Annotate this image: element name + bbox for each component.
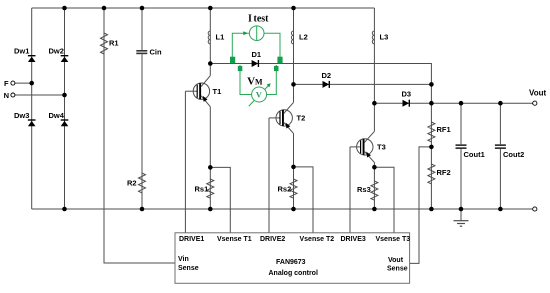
junction top rail L2 bbox=[291, 6, 296, 11]
junction node D2 right bbox=[429, 82, 434, 87]
diode Dw1 bbox=[14, 47, 36, 63]
junction bottom rail R2 bbox=[140, 207, 145, 212]
voltmeter VM circle bbox=[252, 87, 267, 102]
resistor Rs2 bbox=[278, 179, 298, 198]
junction node Rs3 top bbox=[372, 165, 377, 170]
wire R1 column bbox=[104, 8, 175, 263]
svg-text:D1: D1 bbox=[252, 50, 262, 59]
diode D2 bbox=[322, 71, 332, 88]
junction bottom rail Rs2 bbox=[291, 207, 296, 212]
junction bottom rail ground Cout1 bbox=[459, 207, 464, 212]
svg-text:D2: D2 bbox=[322, 71, 332, 80]
resistor RF1 bbox=[428, 122, 451, 142]
junction node N bbox=[62, 93, 67, 98]
svg-text:DRIVE2: DRIVE2 bbox=[260, 236, 285, 243]
inductor L2 bbox=[291, 31, 307, 44]
svg-text:Rs1: Rs1 bbox=[195, 185, 209, 194]
svg-text:N: N bbox=[4, 91, 9, 100]
svg-text:Vsense T2: Vsense T2 bbox=[300, 236, 335, 243]
terminal Vout bbox=[533, 101, 537, 105]
wire Vsense T3 bbox=[374, 167, 394, 233]
svg-text:Vin: Vin bbox=[178, 256, 189, 263]
resistor R2 bbox=[127, 173, 146, 193]
voltmeter VM arrow bbox=[249, 83, 271, 106]
wire DRIVE2 bbox=[269, 117, 280, 119]
junction top rail R1 bbox=[102, 6, 107, 11]
resistor Rs3 bbox=[357, 181, 378, 200]
junction node Rs1 top bbox=[208, 165, 213, 170]
svg-text:R1: R1 bbox=[109, 39, 119, 48]
svg-text:T1: T1 bbox=[213, 87, 222, 96]
svg-text:Cin: Cin bbox=[150, 48, 163, 57]
wire Vout Sense lead bbox=[410, 147, 432, 264]
wire Vsense T2 bbox=[294, 167, 314, 233]
svg-text:L1: L1 bbox=[216, 33, 225, 42]
svg-text:VM: VM bbox=[247, 76, 263, 88]
junction node T2 D2 bbox=[291, 82, 296, 87]
svg-text:L3: L3 bbox=[380, 33, 389, 42]
junction bottom rail bridge col2 bbox=[62, 207, 67, 212]
wire F lead bbox=[15, 82, 32, 84]
svg-text:Cout1: Cout1 bbox=[464, 150, 485, 159]
diode D3 bbox=[402, 90, 412, 107]
capacitor Cout2 bbox=[495, 144, 524, 159]
diode Dw4 bbox=[49, 111, 69, 127]
wire bridge column 2 bbox=[64, 8, 66, 209]
svg-text:Vout: Vout bbox=[529, 89, 547, 98]
diode Dw3 bbox=[14, 111, 36, 127]
controller box FAN9673 bbox=[175, 233, 410, 283]
wire bottom rail bbox=[32, 208, 533, 210]
terminal N bbox=[11, 93, 15, 97]
junction node Cout1 top bbox=[459, 101, 464, 106]
inductor L3 bbox=[372, 31, 388, 44]
transistor T3 bbox=[357, 131, 386, 162]
junction top rail Cin bbox=[140, 6, 145, 11]
wire D3 output net bbox=[374, 102, 532, 104]
svg-text:Itest: Itest bbox=[248, 14, 269, 25]
current probe Itest source circle bbox=[249, 26, 264, 41]
terminal F bbox=[11, 81, 15, 85]
svg-text:T2: T2 bbox=[297, 114, 306, 123]
svg-text:RF1: RF1 bbox=[437, 125, 451, 134]
svg-text:DRIVE3: DRIVE3 bbox=[341, 236, 366, 243]
wire Cout1 column bbox=[460, 103, 462, 144]
current probe Itest terminal squares bbox=[230, 57, 235, 64]
diode D1 bbox=[252, 50, 262, 67]
resistor Rs1 bbox=[195, 179, 214, 198]
ground bbox=[454, 221, 469, 227]
wire DRIVE3 bbox=[350, 146, 361, 148]
svg-text:D3: D3 bbox=[402, 90, 412, 99]
svg-text:Vout: Vout bbox=[388, 257, 404, 264]
svg-text:Rs2: Rs2 bbox=[278, 185, 292, 194]
svg-text:Vsense T1: Vsense T1 bbox=[217, 236, 252, 243]
junction node RF divider bbox=[429, 145, 434, 150]
junction top rail L1 bbox=[208, 6, 213, 11]
junction top rail bridge col2 bbox=[62, 6, 67, 11]
svg-text:DRIVE1: DRIVE1 bbox=[179, 236, 204, 243]
wire L2 T2 Rs2 column bbox=[293, 8, 295, 102]
svg-text:Sense: Sense bbox=[178, 265, 199, 272]
svg-text:Vsense T3: Vsense T3 bbox=[376, 236, 411, 243]
svg-text:Dw3: Dw3 bbox=[14, 111, 29, 120]
junction bottom rail Rs1 bbox=[208, 207, 213, 212]
wire N lead bbox=[15, 94, 65, 96]
svg-text:Analog control: Analog control bbox=[269, 270, 318, 277]
junction node Rs2 top bbox=[291, 165, 296, 170]
wire Vsense T1 bbox=[210, 167, 230, 232]
wire Cin R2 column bbox=[141, 8, 143, 50]
svg-text:V: V bbox=[256, 90, 263, 100]
terminal output return bbox=[533, 207, 537, 211]
wire D1 net bbox=[210, 64, 431, 210]
wire ground stub bbox=[460, 209, 462, 221]
svg-text:RF2: RF2 bbox=[437, 168, 451, 177]
inductor L1 bbox=[208, 31, 224, 44]
svg-text:L2: L2 bbox=[299, 33, 308, 42]
wire D2 net bbox=[294, 83, 432, 85]
transistor T1 bbox=[193, 76, 221, 107]
capacitor Cout1 bbox=[456, 144, 485, 159]
wire Cout2 column bbox=[499, 103, 501, 144]
voltmeter VM terminal squares bbox=[238, 66, 243, 71]
junction node T3 D3 bbox=[372, 101, 377, 106]
junction node L1 D1 bbox=[208, 61, 213, 66]
svg-text:Dw4: Dw4 bbox=[49, 111, 65, 120]
junction node Cout2 top bbox=[498, 101, 503, 106]
svg-text:T3: T3 bbox=[377, 143, 386, 152]
svg-text:Sense: Sense bbox=[387, 266, 408, 273]
wire bridge column 1 bbox=[31, 8, 33, 209]
junction node F bbox=[29, 81, 34, 86]
wire top rail bbox=[32, 7, 375, 9]
voltmeter VM wiring bbox=[240, 65, 276, 95]
transistor T2 bbox=[276, 102, 305, 133]
current probe Itest arrow bbox=[243, 31, 247, 35]
svg-text:F: F bbox=[4, 79, 9, 88]
resistor R1 bbox=[101, 33, 119, 54]
svg-text:R2: R2 bbox=[127, 179, 137, 188]
wire L1 T1 Rs1 column bbox=[209, 8, 211, 76]
svg-text:Rs3: Rs3 bbox=[357, 185, 371, 194]
diode Dw2 bbox=[49, 47, 69, 63]
capacitor Cin bbox=[136, 48, 162, 57]
wire Vin Sense lead bbox=[160, 262, 175, 264]
junction node D3 right bbox=[429, 101, 434, 106]
junction bottom rail RF2 bbox=[429, 207, 434, 212]
svg-text:Dw2: Dw2 bbox=[49, 47, 64, 56]
junction bottom rail Cout2 bbox=[498, 207, 503, 212]
wire L3 T3 Rs3 column bbox=[373, 8, 375, 131]
junction bottom rail Rs3 bbox=[372, 207, 377, 212]
current probe Itest wiring bbox=[232, 33, 280, 63]
resistor RF2 bbox=[428, 164, 451, 184]
wire DRIVE1 bbox=[185, 90, 197, 92]
svg-text:FAN9673: FAN9673 bbox=[276, 259, 306, 266]
svg-text:Dw1: Dw1 bbox=[14, 47, 29, 56]
svg-text:Cout2: Cout2 bbox=[503, 150, 524, 159]
